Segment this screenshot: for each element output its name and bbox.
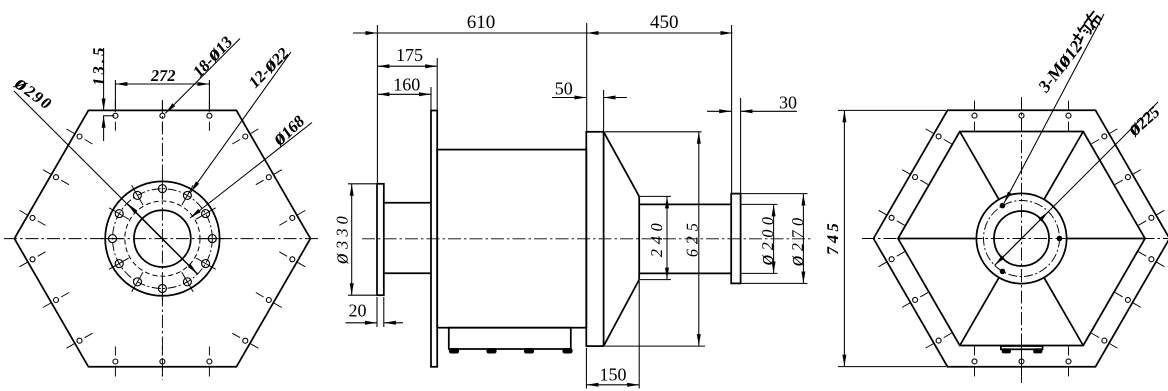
left view hidden circle ø225 (dashed) bbox=[125, 201, 200, 276]
svg-text:150: 150 bbox=[600, 365, 627, 385]
svg-text:ø270: ø270 bbox=[784, 211, 808, 267]
svg-text:625: 625 bbox=[683, 217, 702, 258]
ø200 shaft cylinder bbox=[639, 204, 731, 273]
svg-text:ø330: ø330 bbox=[329, 210, 353, 266]
hexagon plate side view bbox=[431, 111, 437, 367]
left view 18 perimeter bolt holes 18-ø13 bbox=[20, 101, 306, 377]
dimension ø330 bbox=[329, 184, 376, 295]
right view outer circle ø270 bbox=[976, 193, 1066, 283]
dimension 30 (flange thickness) bbox=[707, 92, 797, 193]
svg-text:50: 50 bbox=[555, 78, 573, 98]
svg-text:20: 20 bbox=[349, 301, 367, 321]
svg-text:240: 240 bbox=[647, 217, 666, 258]
bottom junction box with feet bbox=[449, 328, 572, 353]
dimension 160 bbox=[377, 75, 431, 111]
cone taper section bbox=[604, 132, 640, 346]
svg-text:13.5: 13.5 bbox=[89, 43, 108, 87]
left view hexagonal flange outline bbox=[14, 110, 310, 366]
cone base plate side view bbox=[586, 132, 603, 346]
drum cylinder side view bbox=[437, 150, 586, 328]
right view bolt circle ø225 (dash-dot) bbox=[984, 201, 1060, 277]
svg-text:610: 610 bbox=[467, 12, 496, 33]
left view 12 flange bolt holes 12-ø22 bbox=[101, 177, 224, 300]
right view vertical centerline bbox=[1021, 97, 1023, 383]
left view vertical centerline bbox=[161, 100, 163, 380]
right view bore circle bbox=[994, 211, 1049, 266]
dimension 272 (top hole spacing) bbox=[115, 66, 209, 112]
left view horizontal centerline bbox=[4, 238, 318, 240]
right view 18 perimeter bolt holes 18-ø13 bbox=[879, 101, 1165, 377]
svg-text:ø200: ø200 bbox=[754, 210, 778, 266]
dimension 13.5 (hole offset from edge) bbox=[89, 43, 114, 141]
label 18-ø13 with leader to top hole bbox=[165, 28, 240, 113]
label ø168 with leader to bore circle bbox=[190, 107, 312, 218]
svg-text:160: 160 bbox=[393, 75, 420, 95]
dimension ø290 diameter line through bolt circle bbox=[9, 70, 197, 275]
svg-text:30: 30 bbox=[779, 92, 797, 112]
3 M12 tapped holes on ø225 bbox=[1000, 203, 1062, 273]
svg-text:745: 745 bbox=[823, 218, 842, 256]
left view bolt circle ø290 (dash-dot) bbox=[112, 189, 212, 289]
svg-text:450: 450 bbox=[650, 12, 679, 33]
dimension 175 bbox=[377, 45, 437, 111]
dimension 450 bbox=[587, 12, 733, 194]
right flange disc ø270 side view bbox=[731, 194, 740, 284]
dimension ø225 diameter line bbox=[995, 98, 1166, 265]
pyramid edges bbox=[898, 132, 1145, 346]
label 3-Mø12 evenly spaced with leader bbox=[1004, 7, 1108, 203]
left flange disc ø330 side view bbox=[377, 184, 384, 295]
middle view horizontal centerline bbox=[362, 238, 812, 240]
dimension 20 (flange disc thickness) bbox=[346, 297, 404, 327]
left view hub outer circle ø330 bbox=[105, 181, 219, 295]
dimension 610 bbox=[353, 12, 587, 184]
dimension 50 (cone plate thickness) bbox=[552, 78, 627, 131]
dimension ø270 bbox=[742, 194, 808, 284]
right view hexagonal flange outline bbox=[874, 110, 1168, 366]
dimension 745 (across flats) bbox=[823, 110, 946, 366]
dimension 625 bbox=[605, 132, 705, 346]
svg-text:272: 272 bbox=[150, 66, 177, 85]
dimension 240 (cone opening) bbox=[640, 196, 671, 279]
inner hexagon (pyramid base) bbox=[898, 132, 1145, 346]
end view of bottom box bbox=[1001, 346, 1043, 353]
dimension ø200 bbox=[742, 204, 778, 273]
dimension 150 (cone length) bbox=[586, 281, 639, 389]
svg-text:175: 175 bbox=[396, 45, 423, 65]
right view horizontal centerline bbox=[862, 238, 1168, 240]
label 12-ø22 with leader to bolt hole bbox=[191, 39, 295, 192]
left view bore circle ø168 bbox=[134, 210, 191, 267]
hub cylinder ø200 side view bbox=[384, 203, 431, 273]
